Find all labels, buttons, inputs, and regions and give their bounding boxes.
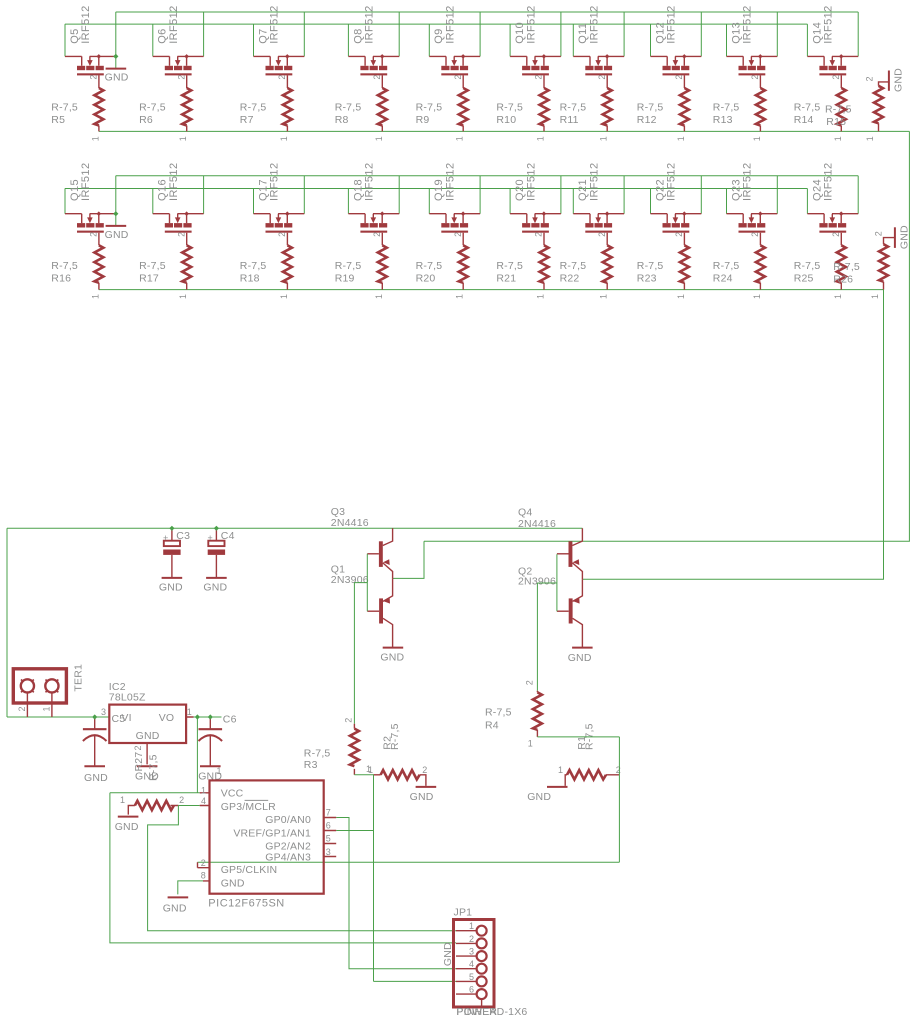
svg-text:Q21: Q21 bbox=[577, 179, 589, 201]
svg-text:IRF512: IRF512 bbox=[823, 163, 835, 201]
svg-text:GP4/AN3: GP4/AN3 bbox=[265, 851, 311, 863]
svg-text:+: + bbox=[163, 533, 168, 543]
svg-text:R20: R20 bbox=[416, 273, 436, 285]
transistor Q3 (2N4416) bbox=[331, 506, 393, 579]
resistor R6 (R-7,5) bbox=[139, 75, 191, 141]
svg-text:IRF512: IRF512 bbox=[525, 5, 537, 43]
wire: Q9 gate and drain drops bbox=[429, 12, 480, 56]
svg-text:Q7: Q7 bbox=[257, 28, 269, 43]
wire: Q22 gate and drain drops bbox=[651, 176, 702, 214]
svg-text:R10: R10 bbox=[496, 114, 516, 126]
svg-text:2: 2 bbox=[422, 765, 427, 775]
ground GND (Q1 collector) bbox=[380, 648, 404, 664]
svg-text:Q11: Q11 bbox=[577, 23, 589, 44]
svg-text:IRF512: IRF512 bbox=[80, 163, 92, 201]
svg-text:Q18: Q18 bbox=[352, 179, 364, 201]
resistor R4 (R-7,5) bbox=[485, 680, 542, 748]
svg-text:R-7,5: R-7,5 bbox=[389, 723, 401, 750]
svg-text:2: 2 bbox=[524, 680, 534, 685]
transistor Q24 (IRF512) bbox=[807, 163, 858, 237]
svg-text:Q24: Q24 bbox=[811, 179, 823, 201]
svg-text:R21: R21 bbox=[496, 273, 516, 285]
svg-text:R-7,5: R-7,5 bbox=[637, 260, 664, 272]
svg-text:Q9: Q9 bbox=[433, 28, 445, 43]
ground GND (R27 pin1) bbox=[115, 817, 139, 833]
transistor Q11 (IRF512) bbox=[573, 5, 624, 79]
resistor R23 (R-7,5) bbox=[637, 233, 689, 299]
svg-text:1: 1 bbox=[469, 921, 474, 931]
resistor R20 (R-7,5) bbox=[416, 233, 468, 299]
svg-text:1: 1 bbox=[833, 294, 843, 299]
svg-text:Q14: Q14 bbox=[811, 22, 823, 44]
resistor R11 (R-7,5) bbox=[560, 75, 612, 141]
resistor R18 (R-7,5) bbox=[240, 233, 292, 299]
transistor Q17 (IRF512) bbox=[253, 163, 304, 237]
resistor R22 (R-7,5) bbox=[560, 233, 612, 299]
svg-text:GND: GND bbox=[163, 903, 187, 915]
svg-text:R-7,5: R-7,5 bbox=[335, 260, 362, 272]
wire: drain bus row bbox=[116, 11, 859, 13]
svg-text:IRF512: IRF512 bbox=[742, 163, 754, 201]
svg-text:2: 2 bbox=[344, 718, 354, 723]
svg-text:C5: C5 bbox=[112, 713, 126, 725]
transistor Q22 (IRF512) bbox=[651, 163, 702, 237]
svg-text:C4: C4 bbox=[221, 530, 235, 542]
IC U2 (IC2 78L05Z regulator) bbox=[101, 681, 194, 765]
svg-text:R-7,5: R-7,5 bbox=[304, 747, 331, 759]
transistor Q14 (IRF512) bbox=[807, 5, 858, 79]
svg-text:GND: GND bbox=[899, 225, 911, 249]
wire: PIC GND pin to ground bbox=[178, 881, 203, 895]
svg-text:1: 1 bbox=[187, 707, 192, 717]
svg-text:Q5: Q5 bbox=[69, 28, 81, 43]
ground GND at Q15 source bbox=[105, 226, 129, 241]
wire: Q13 gate and drain drops bbox=[727, 12, 778, 56]
wire: Q4 gate to Q2 base bbox=[537, 554, 557, 691]
svg-text:2: 2 bbox=[873, 231, 883, 236]
ground GND at Q5 source bbox=[105, 69, 129, 84]
svg-text:R5: R5 bbox=[51, 114, 65, 126]
svg-text:1: 1 bbox=[374, 294, 384, 299]
svg-text:GND: GND bbox=[203, 582, 227, 594]
svg-text:R9: R9 bbox=[416, 114, 430, 126]
resistor R16 (R-7,5) bbox=[51, 233, 103, 299]
svg-text:1: 1 bbox=[676, 136, 686, 141]
transistor Q13 (IRF512) bbox=[727, 5, 778, 79]
resistor R26 (R-7,5) bbox=[833, 231, 895, 299]
svg-text:GND: GND bbox=[105, 229, 129, 241]
resistor R24 (R-7,5) bbox=[713, 233, 765, 299]
junction node (C5 tap) bbox=[92, 714, 97, 719]
resistor R5 (R-7,5) bbox=[51, 75, 103, 141]
wire: Q17 gate and drain drops bbox=[254, 176, 305, 214]
svg-text:IRF512: IRF512 bbox=[269, 163, 281, 201]
transistor Q16 (IRF512) bbox=[153, 163, 204, 237]
junction node (C4 tap) bbox=[214, 526, 219, 531]
svg-text:1: 1 bbox=[599, 294, 609, 299]
svg-text:1: 1 bbox=[120, 795, 125, 805]
svg-text:2N4416: 2N4416 bbox=[518, 518, 556, 530]
transistor Q18 (IRF512) bbox=[348, 163, 399, 237]
svg-text:+: + bbox=[208, 533, 213, 543]
wire: gate bus row bbox=[65, 23, 808, 25]
svg-text:R25: R25 bbox=[794, 273, 814, 285]
wire: gate bus row bbox=[65, 188, 808, 190]
wire: Q20 gate and drain drops bbox=[510, 176, 561, 214]
svg-text:R-7,5: R-7,5 bbox=[148, 754, 160, 781]
svg-text:5: 5 bbox=[469, 972, 474, 982]
svg-text:3: 3 bbox=[101, 707, 106, 717]
svg-text:IRF512: IRF512 bbox=[168, 5, 180, 43]
ground GND (rotated, right of R15) bbox=[889, 68, 905, 92]
wire: Q3 gate to Q1 base bbox=[354, 554, 367, 724]
svg-text:PINHEAD-1X6: PINHEAD-1X6 bbox=[456, 1006, 527, 1018]
capacitor C6 bbox=[198, 714, 236, 783]
svg-text:1: 1 bbox=[455, 136, 465, 141]
ground GND (PIC pin8) bbox=[163, 897, 189, 914]
svg-text:6: 6 bbox=[326, 821, 331, 831]
svg-text:Q12: Q12 bbox=[654, 22, 666, 44]
wire: source rail row bbox=[99, 289, 884, 291]
svg-text:R4: R4 bbox=[485, 720, 499, 732]
junction node (C3 tap) bbox=[169, 526, 174, 531]
svg-text:1: 1 bbox=[41, 706, 51, 711]
svg-text:IRF512: IRF512 bbox=[445, 163, 457, 201]
svg-text:2: 2 bbox=[865, 76, 875, 81]
svg-text:R15: R15 bbox=[826, 116, 846, 128]
svg-text:R-7,5: R-7,5 bbox=[794, 260, 821, 272]
transistor Q9 (IRF512) bbox=[429, 5, 480, 79]
svg-text:1: 1 bbox=[536, 136, 546, 141]
svg-text:IRF512: IRF512 bbox=[589, 5, 601, 43]
wire: Q12 gate and drain drops bbox=[651, 12, 702, 56]
capacitor C4 bbox=[203, 528, 234, 593]
wire: Q14 gate and drain drops bbox=[807, 12, 858, 56]
resistor R19 (R-7,5) bbox=[335, 233, 387, 299]
svg-text:8: 8 bbox=[201, 871, 206, 881]
svg-text:R-7,5: R-7,5 bbox=[139, 260, 166, 272]
svg-text:R-7,5: R-7,5 bbox=[496, 102, 523, 114]
transistor Q15 (IRF512) bbox=[65, 163, 116, 237]
svg-text:6: 6 bbox=[469, 985, 474, 995]
svg-text:2: 2 bbox=[616, 765, 621, 775]
svg-text:1: 1 bbox=[90, 136, 100, 141]
resistor R10 (R-7,5) bbox=[496, 75, 548, 141]
svg-text:1: 1 bbox=[752, 294, 762, 299]
resistor R1 (R-7,5) bbox=[558, 723, 621, 786]
svg-text:1: 1 bbox=[201, 785, 206, 795]
svg-text:GND: GND bbox=[159, 582, 183, 594]
svg-text:GND: GND bbox=[568, 652, 592, 664]
junction node (C6 tap) bbox=[208, 714, 213, 719]
svg-text:GND: GND bbox=[136, 730, 160, 742]
svg-text:Q13: Q13 bbox=[730, 22, 742, 44]
svg-text:1: 1 bbox=[90, 294, 100, 299]
wire: Q16 gate and drain drops bbox=[153, 176, 204, 214]
wire: Q10 gate and drain drops bbox=[510, 12, 561, 56]
svg-text:7: 7 bbox=[326, 808, 331, 818]
svg-text:GND: GND bbox=[105, 72, 129, 84]
svg-text:GP0/AN0: GP0/AN0 bbox=[265, 814, 311, 826]
svg-text:1: 1 bbox=[865, 136, 875, 141]
svg-text:5: 5 bbox=[326, 834, 331, 844]
svg-text:IRF512: IRF512 bbox=[823, 5, 835, 43]
wire: R3/R2 node down to JP1 pin5 bbox=[336, 775, 456, 982]
wire: drain bus row bbox=[116, 175, 859, 177]
svg-text:C3: C3 bbox=[176, 530, 190, 542]
transistor Q23 (IRF512) bbox=[727, 163, 778, 237]
svg-text:2N4416: 2N4416 bbox=[331, 517, 369, 529]
svg-text:Q16: Q16 bbox=[157, 179, 169, 201]
transistor Q5 (IRF512) bbox=[65, 5, 116, 79]
svg-text:IRF512: IRF512 bbox=[742, 5, 754, 43]
svg-text:JP1: JP1 bbox=[454, 907, 473, 919]
connector TER1 bbox=[13, 664, 84, 717]
ground GND (R1 pin1) bbox=[527, 787, 567, 803]
svg-text:GND: GND bbox=[442, 942, 454, 966]
svg-text:IRF512: IRF512 bbox=[525, 163, 537, 201]
svg-text:VO: VO bbox=[159, 712, 175, 724]
svg-text:R17: R17 bbox=[139, 273, 159, 285]
wire: row2 rail to Q4/Q2 node bbox=[582, 290, 883, 580]
svg-text:Q20: Q20 bbox=[514, 179, 526, 201]
svg-text:R23: R23 bbox=[637, 273, 657, 285]
resistor R17 (R-7,5) bbox=[139, 233, 191, 299]
svg-text:R-7,5: R-7,5 bbox=[713, 260, 740, 272]
ground GND (IC2 pin2) bbox=[135, 766, 159, 782]
resistor R7 (R-7,5) bbox=[240, 75, 292, 141]
transistor Q2 (2N3906) bbox=[518, 566, 582, 648]
resistor R13 (R-7,5) bbox=[713, 75, 765, 141]
svg-text:R-7,5: R-7,5 bbox=[485, 707, 512, 719]
svg-text:Q23: Q23 bbox=[730, 179, 742, 201]
svg-text:R-7,5: R-7,5 bbox=[240, 102, 267, 114]
transistor Q10 (IRF512) bbox=[510, 5, 561, 79]
svg-text:IRF512: IRF512 bbox=[666, 163, 678, 201]
svg-text:GP5/CLKIN: GP5/CLKIN bbox=[221, 864, 278, 876]
svg-text:IRF512: IRF512 bbox=[364, 163, 376, 201]
svg-text:R-7,5: R-7,5 bbox=[416, 102, 443, 114]
svg-text:1: 1 bbox=[217, 766, 222, 776]
svg-text:R12: R12 bbox=[637, 114, 657, 126]
svg-text:R26: R26 bbox=[833, 274, 853, 286]
svg-text:GND: GND bbox=[221, 877, 245, 889]
svg-text:R-7,5: R-7,5 bbox=[713, 102, 740, 114]
svg-text:2: 2 bbox=[17, 706, 27, 711]
wire: Q6 gate and drain drops bbox=[153, 12, 204, 56]
svg-text:Q15: Q15 bbox=[69, 179, 81, 201]
wire: Q24 gate and drain drops bbox=[807, 176, 858, 214]
svg-text:1: 1 bbox=[870, 294, 880, 299]
svg-text:R22: R22 bbox=[560, 273, 580, 285]
svg-text:1: 1 bbox=[536, 294, 546, 299]
svg-text:1: 1 bbox=[178, 136, 188, 141]
wire: Q21 gate and drain drops bbox=[573, 176, 624, 214]
svg-text:1: 1 bbox=[558, 765, 563, 775]
svg-text:2N3906: 2N3906 bbox=[331, 574, 369, 586]
svg-text:PIC12F675SN: PIC12F675SN bbox=[208, 897, 284, 909]
svg-text:R-7,5: R-7,5 bbox=[335, 102, 362, 114]
svg-text:GP3/MCLR: GP3/MCLR bbox=[221, 801, 276, 813]
svg-text:1: 1 bbox=[279, 294, 289, 299]
svg-text:1: 1 bbox=[455, 294, 465, 299]
svg-text:IRF512: IRF512 bbox=[168, 163, 180, 201]
svg-text:R3: R3 bbox=[304, 759, 318, 771]
svg-text:R-7,5: R-7,5 bbox=[833, 261, 860, 273]
svg-text:GND: GND bbox=[410, 791, 434, 803]
svg-text:R-7,5: R-7,5 bbox=[794, 102, 821, 114]
svg-text:R16: R16 bbox=[51, 273, 71, 285]
transistor Q6 (IRF512) bbox=[153, 5, 204, 79]
svg-text:R-7,5: R-7,5 bbox=[240, 260, 267, 272]
svg-text:78L05Z: 78L05Z bbox=[109, 691, 146, 703]
connector JP1 (PINHEAD-1X6) bbox=[454, 907, 528, 1018]
svg-text:R13: R13 bbox=[713, 114, 733, 126]
svg-text:1: 1 bbox=[833, 136, 843, 141]
svg-text:R-7,5: R-7,5 bbox=[560, 102, 587, 114]
svg-text:1: 1 bbox=[374, 136, 384, 141]
svg-text:2: 2 bbox=[133, 745, 143, 750]
resistor R3 (R-7,5) bbox=[304, 718, 371, 775]
svg-text:R-7,5: R-7,5 bbox=[637, 102, 664, 114]
svg-text:3: 3 bbox=[326, 847, 331, 857]
junction node (Q5 bulk) bbox=[113, 54, 118, 59]
svg-text:Q10: Q10 bbox=[514, 22, 526, 44]
transistor Q7 (IRF512) bbox=[253, 5, 304, 79]
transistor Q1 (2N3906) bbox=[331, 564, 393, 648]
wire: R4 to R1 pin2 and GP5 net bbox=[198, 737, 620, 862]
svg-text:GND: GND bbox=[115, 821, 139, 833]
wire: row1 rail to Q3/Q1 node (right edge) bbox=[393, 131, 910, 578]
ground GND (Q2 collector) bbox=[568, 648, 593, 664]
svg-text:R7: R7 bbox=[240, 114, 254, 126]
svg-text:1: 1 bbox=[279, 136, 289, 141]
svg-text:IRF512: IRF512 bbox=[269, 5, 281, 43]
wire: Q15 gate and drain drops bbox=[65, 176, 116, 226]
svg-text:4: 4 bbox=[469, 959, 474, 969]
wire: source rail row bbox=[99, 130, 910, 132]
svg-text:Q17: Q17 bbox=[257, 179, 269, 201]
resistor R25 (R-7,5) bbox=[794, 233, 846, 299]
svg-text:R27: R27 bbox=[133, 752, 145, 772]
junction node (VO) bbox=[195, 714, 200, 719]
svg-text:R-7,5: R-7,5 bbox=[51, 260, 78, 272]
svg-text:GND: GND bbox=[380, 652, 404, 664]
svg-text:R19: R19 bbox=[335, 273, 355, 285]
svg-text:IRF512: IRF512 bbox=[589, 163, 601, 201]
resistor R21 (R-7,5) bbox=[496, 233, 548, 299]
svg-text:VCC: VCC bbox=[221, 787, 244, 799]
svg-text:3: 3 bbox=[469, 947, 474, 957]
svg-text:2: 2 bbox=[201, 858, 206, 868]
wire: Q19 gate and drain drops bbox=[429, 176, 480, 214]
wire: Q8 gate and drain drops bbox=[348, 12, 399, 56]
svg-text:R11: R11 bbox=[560, 114, 579, 126]
svg-text:Q22: Q22 bbox=[654, 179, 666, 201]
wire: +V net (TER1 to Q3/Q4 drains) bbox=[7, 528, 582, 717]
resistor R15 (R-7,5) bbox=[825, 76, 889, 141]
resistor R9 (R-7,5) bbox=[416, 75, 468, 141]
wire: Q23 gate and drain drops bbox=[727, 176, 778, 214]
transistor Q8 (IRF512) bbox=[348, 5, 399, 79]
transistor Q12 (IRF512) bbox=[651, 5, 702, 79]
svg-text:R14: R14 bbox=[794, 114, 814, 126]
svg-text:TER1: TER1 bbox=[73, 664, 85, 692]
wire: GP0 to JP1 pin4 bbox=[336, 818, 456, 969]
junction node (Q15 bulk) bbox=[113, 211, 118, 216]
transistor Q4 (2N4416) bbox=[518, 507, 582, 580]
svg-text:C6: C6 bbox=[223, 714, 237, 726]
svg-text:R-7,5: R-7,5 bbox=[560, 260, 587, 272]
capacitor C5 bbox=[83, 713, 125, 784]
resistor R2 (R-7,5) bbox=[368, 723, 427, 786]
svg-text:1: 1 bbox=[178, 294, 188, 299]
svg-text:Q19: Q19 bbox=[433, 179, 445, 201]
capacitor C3 bbox=[159, 528, 190, 593]
wire: Q11 gate and drain drops bbox=[573, 12, 624, 56]
svg-text:IRF512: IRF512 bbox=[445, 5, 457, 43]
svg-text:R-7,5: R-7,5 bbox=[51, 102, 78, 114]
wire: Q5 gate and drain drops bbox=[65, 12, 116, 69]
transistor Q20 (IRF512) bbox=[510, 163, 561, 237]
svg-text:R-7,5: R-7,5 bbox=[825, 103, 852, 115]
svg-text:IRF512: IRF512 bbox=[666, 5, 678, 43]
resistor R27 (R-7,5) bbox=[120, 752, 184, 815]
svg-text:Q4: Q4 bbox=[518, 507, 532, 519]
resistor R14 (R-7,5) bbox=[794, 75, 846, 141]
wire: VO +5V net bbox=[110, 717, 456, 943]
svg-text:R6: R6 bbox=[139, 114, 153, 126]
svg-text:Q6: Q6 bbox=[157, 28, 169, 43]
resistor R12 (R-7,5) bbox=[637, 75, 689, 141]
svg-text:R-7,5: R-7,5 bbox=[139, 102, 166, 114]
transistor Q19 (IRF512) bbox=[429, 163, 480, 237]
svg-text:1: 1 bbox=[676, 294, 686, 299]
ground GND (rotated, right of R26) bbox=[895, 225, 911, 249]
svg-text:GND: GND bbox=[527, 791, 551, 803]
svg-text:R-7,5: R-7,5 bbox=[496, 260, 523, 272]
svg-text:2: 2 bbox=[179, 795, 184, 805]
transistor Q21 (IRF512) bbox=[573, 163, 624, 237]
wire: MCLR net (R27/GP3 to JP1 pin1) bbox=[148, 806, 456, 931]
svg-text:1: 1 bbox=[599, 136, 609, 141]
svg-text:GND: GND bbox=[893, 68, 905, 92]
svg-text:2: 2 bbox=[469, 934, 474, 944]
svg-text:Q8: Q8 bbox=[352, 28, 364, 43]
IC U1 (PIC12F675SN) bbox=[198, 780, 337, 909]
wire: Q7 gate and drain drops bbox=[254, 12, 305, 56]
svg-text:R-7,5: R-7,5 bbox=[416, 260, 443, 272]
svg-text:1: 1 bbox=[752, 136, 762, 141]
svg-text:IRF512: IRF512 bbox=[80, 5, 92, 43]
svg-text:VREF/GP1/AN1: VREF/GP1/AN1 bbox=[233, 827, 311, 839]
svg-text:1: 1 bbox=[528, 739, 533, 749]
resistor R8 (R-7,5) bbox=[335, 75, 387, 141]
svg-text:IRF512: IRF512 bbox=[364, 5, 376, 43]
svg-text:R8: R8 bbox=[335, 114, 349, 126]
ground GND (R2 pin2) bbox=[410, 787, 437, 803]
svg-text:1: 1 bbox=[368, 765, 373, 775]
svg-text:4: 4 bbox=[201, 796, 206, 806]
svg-text:R18: R18 bbox=[240, 273, 260, 285]
wire: Q18 gate and drain drops bbox=[348, 176, 399, 214]
svg-text:GND: GND bbox=[84, 772, 108, 784]
svg-text:R24: R24 bbox=[713, 273, 733, 285]
